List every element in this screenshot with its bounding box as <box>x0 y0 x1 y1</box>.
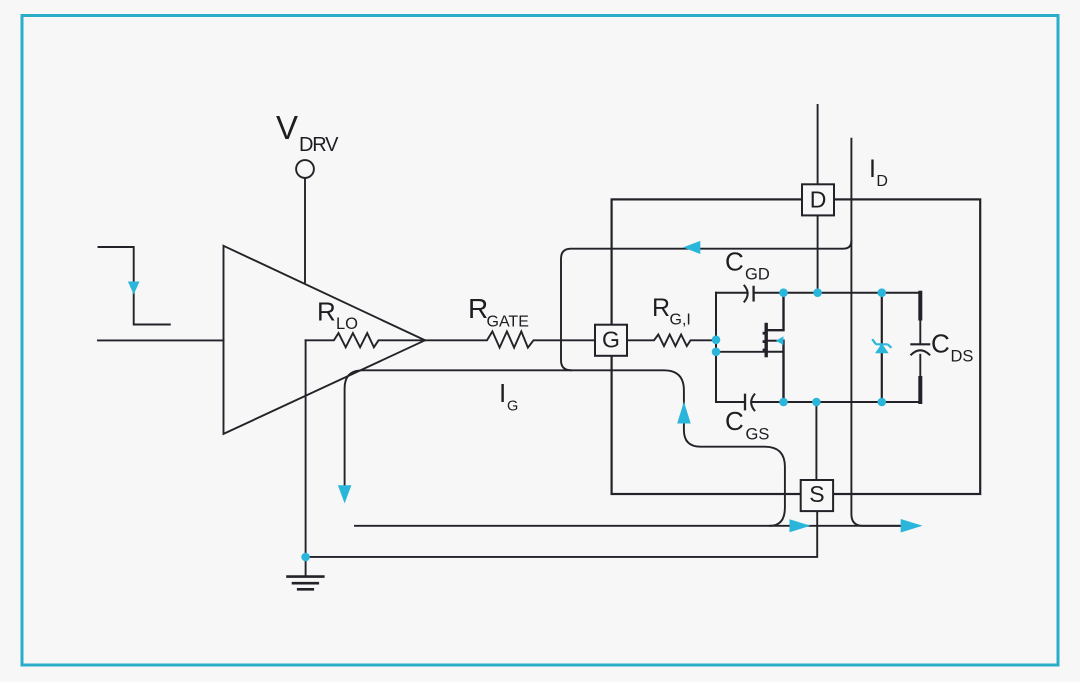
svg-text:R: R <box>317 296 336 326</box>
svg-text:C: C <box>725 247 744 277</box>
svg-text:I: I <box>869 155 876 183</box>
svg-text:D: D <box>876 173 888 190</box>
svg-text:GS: GS <box>746 425 770 443</box>
svg-text:D: D <box>810 186 827 212</box>
svg-text:R: R <box>652 294 670 322</box>
svg-text:DS: DS <box>951 348 974 366</box>
svg-text:LO: LO <box>336 315 358 333</box>
svg-text:I: I <box>499 378 506 408</box>
svg-text:DRV: DRV <box>299 134 339 156</box>
svg-text:S: S <box>809 481 824 507</box>
svg-text:V: V <box>276 109 298 146</box>
svg-text:G,I: G,I <box>670 312 691 329</box>
svg-text:C: C <box>725 406 744 436</box>
svg-text:GATE: GATE <box>487 314 529 331</box>
svg-text:R: R <box>468 293 488 324</box>
svg-text:C: C <box>931 329 950 359</box>
svg-text:G: G <box>602 326 620 352</box>
svg-text:GD: GD <box>745 266 770 284</box>
svg-text:G: G <box>507 398 518 414</box>
